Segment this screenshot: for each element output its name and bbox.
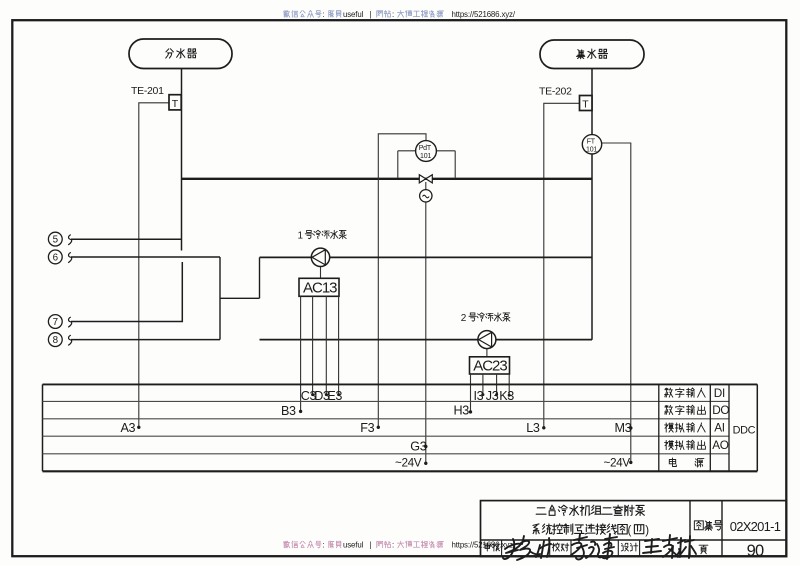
svg-text:K3: K3 [499,389,514,403]
svg-text:M3: M3 [615,421,632,435]
svg-text:5: 5 [53,235,59,246]
svg-text:AI: AI [714,421,725,435]
svg-text:https://521686.xyz/: https://521686.xyz/ [452,10,516,19]
svg-text:TE-201: TE-201 [131,85,164,97]
svg-text:6: 6 [53,252,59,263]
svg-text:PdT: PdT [419,145,432,152]
svg-text:7: 7 [53,317,58,328]
svg-text:AC23: AC23 [473,357,507,374]
svg-text:G3: G3 [410,439,426,453]
svg-text:T: T [172,98,179,110]
svg-text:B3: B3 [281,404,296,418]
svg-text:|: | [370,10,372,19]
svg-text:~24V: ~24V [395,456,422,470]
svg-text:2: 2 [461,313,467,324]
svg-text:FT: FT [587,139,596,146]
svg-text:|: | [370,540,372,549]
svg-text:101: 101 [420,153,431,160]
svg-text:A3: A3 [121,421,136,435]
svg-text:useful: useful [343,10,364,19]
svg-text:DI: DI [714,386,725,400]
svg-text:~24V: ~24V [604,455,631,469]
svg-text:DO: DO [712,403,729,417]
svg-text:1: 1 [298,231,304,242]
svg-text:8: 8 [53,335,59,346]
svg-text:(: ( [628,525,632,537]
svg-text:useful: useful [343,540,364,549]
svg-text:AC13: AC13 [303,280,337,297]
svg-text:H3: H3 [454,404,470,418]
svg-text:TE-202: TE-202 [539,86,572,98]
svg-text:DDC: DDC [733,425,756,437]
svg-text:101: 101 [586,147,597,154]
svg-text:I3: I3 [474,389,484,403]
svg-text:T: T [582,99,589,111]
svg-text:02X201-1: 02X201-1 [730,519,781,534]
svg-text::: : [392,10,394,19]
svg-text:F3: F3 [360,421,374,435]
svg-text:): ) [645,525,649,537]
svg-text::: : [392,541,394,550]
svg-text:AO: AO [712,438,729,452]
svg-text:E3: E3 [327,389,342,403]
svg-text::: : [323,10,325,19]
svg-text:90: 90 [747,542,764,560]
svg-text:J3: J3 [486,389,499,403]
svg-text:L3: L3 [526,421,540,435]
svg-text::: : [323,541,325,550]
